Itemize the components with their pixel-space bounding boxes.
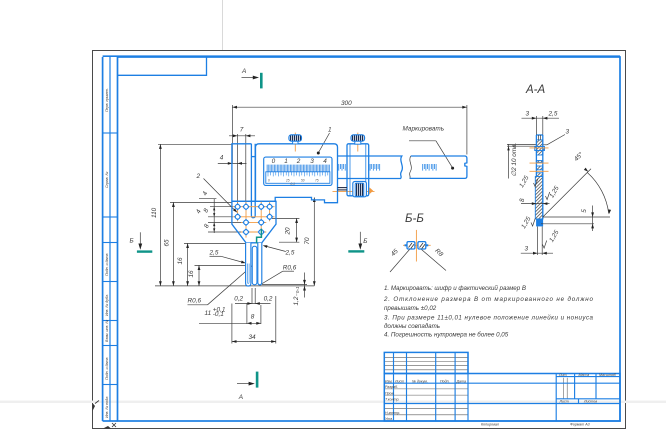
svg-text:Масса: Масса (579, 373, 590, 377)
label 1 (317, 127, 332, 155)
svg-text:А: А (241, 68, 246, 75)
svg-text:3: 3 (310, 158, 314, 165)
mark Б right (348, 232, 367, 253)
svg-text:Дата: Дата (456, 380, 466, 384)
dim 300 (232, 100, 467, 109)
svg-text:0,2: 0,2 (234, 295, 243, 302)
svg-text:4: 4 (323, 158, 327, 165)
dim 20 (272, 218, 299, 242)
svg-text:1: 1 (328, 127, 332, 134)
svg-text:Перв. примен.: Перв. примен. (105, 88, 109, 112)
beam right piece (410, 156, 467, 178)
svg-text:Пров.: Пров. (385, 391, 394, 395)
svg-text:№ докум.: № докум. (412, 380, 428, 384)
45 degree construction (543, 169, 610, 217)
dim 16 first (177, 243, 246, 286)
thumb screw 1 (289, 135, 302, 144)
svg-text:8: 8 (251, 314, 255, 321)
leaders (390, 250, 410, 273)
label 2,5 right (262, 244, 294, 256)
left margin column cells (103, 133, 118, 385)
inner small verticals in top white part (538, 135, 540, 140)
svg-text:А-А: А-А (525, 84, 546, 96)
svg-text:5: 5 (581, 209, 588, 213)
svg-text:65: 65 (163, 239, 170, 247)
bar: white base (536, 135, 542, 220)
svg-text:4. Погрешность нутромера не бо: 4. Погрешность нутромера не более 0,05 (384, 332, 509, 339)
svg-text:∅2 10 отв.: ∅2 10 отв. (511, 143, 518, 177)
svg-text:3: 3 (566, 129, 570, 136)
svg-text:А: А (238, 394, 243, 401)
svg-text:1. Маркировать: шифр и фактиче: 1. Маркировать: шифр и фактический разме… (384, 285, 526, 292)
slider (347, 144, 369, 196)
svg-text:4: 4 (220, 155, 224, 162)
svg-text:R0,6: R0,6 (188, 298, 202, 305)
svg-text:Взам. инв. №: Взам. инв. № (105, 320, 109, 342)
svg-text:Лист: Лист (559, 400, 569, 404)
holes (235, 204, 273, 236)
svg-text:превышать ±0,02: превышать ±0,02 (384, 305, 437, 312)
paper corner marks (93, 403, 96, 411)
svg-text:Подп.: Подп. (440, 380, 450, 384)
svg-text:50: 50 (301, 179, 305, 183)
dim 300 extension lines (232, 105, 467, 207)
svg-text:Справ. №: Справ. № (105, 172, 109, 188)
svg-text:3: 3 (526, 111, 530, 118)
svg-text:-0,1: -0,1 (213, 311, 224, 318)
dim 110 (151, 144, 232, 286)
Ø2 10 отв. callout (507, 143, 536, 179)
label R0,6 left (188, 266, 253, 305)
svg-text:Изм.: Изм. (385, 380, 393, 384)
dim 4 (top) (218, 155, 247, 165)
orange centerlines of holes (233, 202, 275, 238)
svg-text:Подп. и дата: Подп. и дата (105, 254, 109, 277)
svg-text:Б-Б: Б-Б (405, 213, 424, 225)
beam (ruler) left piece (338, 156, 467, 179)
svg-text:Б: Б (363, 238, 367, 245)
svg-text:2,5: 2,5 (548, 111, 558, 118)
beam scale ticks group1 (339, 164, 436, 171)
dim 5 (541, 206, 594, 232)
mark A bottom (237, 372, 258, 401)
dim 34 (232, 296, 276, 344)
head block (232, 201, 276, 243)
svg-text:Утв.: Утв. (385, 417, 393, 421)
notes text (383, 285, 594, 339)
blade cross sections (405, 242, 429, 249)
dim 7 (229, 127, 255, 138)
svg-text:34: 34 (249, 334, 257, 341)
clamp screw bottom (338, 182, 374, 197)
hatch blocks (535, 140, 545, 177)
orange centerlines: screws (295, 133, 374, 192)
svg-text:Разраб.: Разраб. (385, 385, 398, 389)
svg-text:Т.контр.: Т.контр. (385, 397, 400, 401)
svg-text:2,5: 2,5 (209, 250, 219, 257)
dim 8 / 11 (199, 303, 261, 325)
slot in column (251, 144, 255, 218)
bar outline (536, 135, 542, 219)
svg-text:0: 0 (272, 158, 276, 165)
svg-text:2: 2 (296, 158, 301, 165)
dim 70 (304, 197, 316, 286)
svg-text:Формат А3: Формат А3 (570, 423, 590, 427)
mark Б left (130, 232, 153, 252)
svg-text:8: 8 (519, 198, 526, 202)
label 2,5 left (209, 250, 247, 265)
faint screenshot artifact lines (222, 0, 224, 50)
label R0,6 right (260, 265, 297, 286)
labels (385, 373, 617, 421)
svg-text:Н.контр.: Н.контр. (385, 411, 400, 415)
label 3 (541, 129, 570, 145)
svg-text:3: 3 (525, 246, 529, 253)
label Маркировать (403, 126, 455, 170)
svg-text:2,5: 2,5 (285, 250, 295, 257)
svg-text:2. Отклонение размера В от мар: 2. Отклонение размера В от маркированног… (383, 296, 594, 303)
svg-text:70: 70 (304, 237, 311, 245)
svg-text:должны совпадать: должны совпадать (384, 323, 440, 330)
body of caliper (256, 144, 338, 203)
svg-text:75: 75 (315, 179, 319, 183)
drawing frame (103, 56, 620, 421)
svg-text:2: 2 (196, 173, 201, 180)
svg-text:Подп. и дата: Подп. и дата (105, 358, 109, 381)
svg-text:16: 16 (177, 257, 184, 265)
svg-text:Б: Б (130, 237, 134, 244)
svg-text:16: 16 (188, 270, 195, 278)
svg-text:1,2₋₀,₁: 1,2₋₀,₁ (293, 287, 300, 306)
svg-text:Лист: Лист (394, 380, 404, 384)
svg-text:0: 0 (268, 179, 270, 183)
svg-text:Инв. № подл.: Инв. № подл. (105, 396, 109, 418)
title block (384, 352, 620, 421)
second baseline for 1,2 dim (262, 284, 307, 286)
svg-text:110: 110 (151, 207, 158, 218)
label 2 (196, 173, 239, 214)
measuring blades (246, 243, 262, 286)
column to head (232, 144, 252, 202)
svg-text:R0,6: R0,6 (283, 265, 297, 272)
orange centerlines (530, 148, 549, 171)
roughness marks (518, 174, 561, 248)
thumb screw 2 (351, 135, 365, 144)
top-left stamp cell (118, 57, 207, 75)
svg-text:20: 20 (284, 227, 291, 236)
svg-text:7: 7 (240, 127, 244, 134)
gray row lines upper change table (384, 357, 567, 415)
svg-text:25: 25 (285, 179, 290, 183)
dim 16 second (188, 265, 250, 286)
svg-text:Копировал: Копировал (481, 423, 499, 427)
svg-text:0,2: 0,2 (264, 295, 273, 302)
svg-text:1: 1 (284, 158, 288, 165)
dim 65 (163, 202, 232, 286)
svg-text:Листов: Листов (583, 400, 597, 404)
bottom dim 3 (521, 227, 553, 256)
beam break second curve (410, 156, 412, 179)
vernier window (264, 157, 332, 186)
mini dims 4/8/8 near holes (199, 199, 242, 233)
dim 8 (519, 198, 550, 205)
svg-text:3. При размере 11±0,01 нулевое: 3. При размере 11±0,01 нулевое положение… (384, 315, 594, 322)
blue structure (384, 352, 620, 421)
dim 0,2 pair (234, 288, 273, 305)
svg-text:Масштаб: Масштаб (599, 373, 617, 377)
svg-text:11: 11 (205, 310, 212, 317)
svg-text:Инв. № дубл.: Инв. № дубл. (105, 294, 109, 316)
teal mark on head (257, 229, 262, 244)
mark A top (241, 68, 263, 89)
top dim 3 / 2,5 (522, 111, 560, 135)
common baseline (155, 285, 314, 287)
svg-text:300: 300 (341, 100, 352, 107)
svg-text:Маркировать: Маркировать (403, 126, 445, 133)
svg-text:0,1: 0,1 (291, 182, 296, 186)
dim 1,2 (293, 273, 306, 306)
svg-text:Лит.: Лит. (558, 373, 567, 377)
paper border (93, 51, 626, 429)
